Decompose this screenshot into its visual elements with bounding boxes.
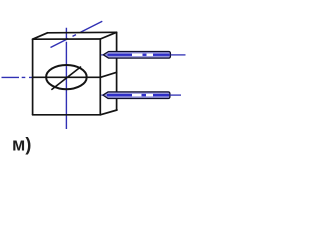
wire right face bottom receding edge	[100, 110, 117, 115]
wire front face left edge	[32, 39, 34, 115]
wire diagonal diameter inside ellipse	[52, 67, 81, 89]
stud B1 upper	[101, 52, 186, 59]
wire top face left receding edge	[33, 33, 48, 39]
wire stud B2 white dash 2	[146, 94, 153, 97]
wire front face top edge	[33, 38, 101, 40]
node diagonal centerline top	[51, 21, 103, 47]
wire back right vertical edge	[116, 32, 118, 110]
stud B1 body	[103, 52, 170, 59]
wire stud B2 right axis tail	[170, 94, 181, 96]
wire stud B1 left axis tail	[101, 54, 104, 56]
wire split line on front face	[33, 76, 101, 78]
wire front face right edge	[99, 39, 101, 115]
wire stud B1 center stripe	[108, 54, 170, 56]
wire top face right receding edge	[100, 32, 116, 39]
stud B2 lower	[101, 92, 181, 99]
wire front face bottom edge	[33, 114, 101, 116]
node horizontal centerline left	[2, 76, 34, 78]
node vertical centerline	[65, 28, 67, 129]
svg-text:м): м)	[12, 135, 31, 155]
wire stud B2 center stripe	[107, 94, 169, 96]
wire stud B1 white dash 2	[147, 53, 154, 56]
wire split line on right face	[101, 72, 117, 77]
ellipse bore hole	[46, 65, 87, 89]
wire stud B1 right axis tail	[171, 54, 186, 56]
wire stud B2 white dash 1	[132, 94, 142, 97]
wire stud B2 left axis tail	[101, 94, 103, 96]
wire stud B1 white dash 1	[132, 53, 143, 56]
stud B2 body	[103, 92, 170, 99]
wire top face back edge	[48, 31, 117, 34]
